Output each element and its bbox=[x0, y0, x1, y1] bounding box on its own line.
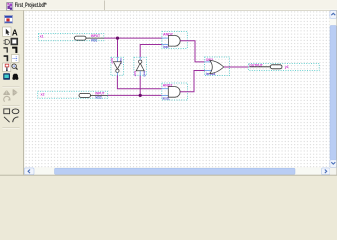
bubble bbox=[139, 60, 142, 63]
toolbar: arc tool bbox=[13, 117, 19, 122]
window bottom edge bbox=[0, 174, 337, 177]
triangle bbox=[113, 62, 121, 69]
pin stub in (blue, selected) bbox=[139, 71, 141, 76]
toolbar: rubberbanding (pressed) bbox=[3, 63, 11, 72]
svg-text:inst5: inst5 bbox=[143, 71, 147, 77]
triangle bbox=[136, 63, 144, 70]
toolbar: block tool bbox=[11, 39, 17, 45]
input pin x1 bbox=[38, 34, 103, 43]
toolbar separator bbox=[2, 127, 19, 130]
svg-text:NOT: NOT bbox=[133, 71, 137, 77]
svg-text:First_Project.bdf*: First_Project.bdf* bbox=[15, 2, 47, 9]
AND body bbox=[168, 36, 180, 47]
schematic bbox=[38, 32, 320, 101]
toolbar: rotate 90 (disabled) bbox=[4, 96, 10, 101]
toolbar: orthogonal bus tool bbox=[12, 48, 16, 53]
title bar bbox=[0, 0, 337, 10]
toolbar: symbol tool bbox=[5, 40, 9, 45]
pin stub in1 (blue) bbox=[162, 37, 169, 39]
wire x2 branch up to NOT inst5 bbox=[139, 75, 141, 95]
toolbar: window button bbox=[4, 15, 12, 23]
vertical scrollbar bbox=[330, 11, 337, 168]
toolbar: rectangle tool bbox=[4, 109, 10, 114]
output pin y1 bbox=[249, 64, 320, 71]
toolbar: orthogonal conduit tool bbox=[4, 56, 8, 61]
pin stub in1 (blue) bbox=[162, 88, 169, 90]
junction node B bbox=[139, 94, 142, 97]
toolbar separator bbox=[2, 105, 19, 108]
pin symbol body y1 bbox=[270, 65, 282, 69]
pin lead x1 bbox=[86, 37, 104, 39]
wire AND inst1 output to OR inst3 bbox=[180, 71, 205, 92]
AND2 gate inst (top) bbox=[162, 32, 187, 49]
pin stub in2 (blue) bbox=[205, 70, 212, 72]
OR body bbox=[210, 60, 224, 73]
pin stub in2 (blue) bbox=[162, 44, 169, 46]
pin stub in1 (blue) bbox=[205, 61, 212, 63]
svg-text:x1: x1 bbox=[40, 35, 44, 39]
pin stub out (blue, selected) bbox=[139, 57, 141, 60]
selection box x1 bbox=[38, 34, 103, 41]
wire x1 rail bbox=[104, 37, 162, 39]
bubble bbox=[116, 69, 119, 72]
wire NOT inst5 output to AND inst bbox=[140, 45, 162, 58]
NOT gate inst4 (points down) bbox=[110, 57, 123, 75]
wire OR inst3 output to pin y1 bbox=[224, 66, 249, 68]
pin stub in (blue, selected) bbox=[116, 57, 118, 61]
pin lead y1 bbox=[249, 66, 270, 68]
toolbar: flip horizontal (disabled) bbox=[3, 91, 9, 94]
svg-text:y1: y1 bbox=[285, 65, 289, 69]
pin lead x2 bbox=[91, 94, 108, 96]
canvas bbox=[24, 11, 330, 168]
toolbar: line tool bbox=[4, 117, 10, 122]
svg-text:NOT: NOT bbox=[110, 58, 114, 64]
toolbar: selection arrow (pressed) bbox=[3, 27, 11, 36]
svg-text:VCC: VCC bbox=[95, 96, 102, 100]
toolbar separator bbox=[2, 85, 19, 88]
pin stub out (blue, selected) bbox=[116, 72, 118, 75]
toolbar: flip vertical (disabled) bbox=[13, 89, 16, 95]
svg-text:OUTPUT: OUTPUT bbox=[249, 64, 263, 68]
document icon bbox=[7, 3, 13, 11]
toolbar: find bbox=[13, 74, 18, 78]
left toolbar bbox=[0, 11, 23, 175]
window right edge bbox=[336, 10, 337, 175]
wire x2 rail bbox=[108, 94, 162, 96]
window background bbox=[0, 0, 337, 177]
toolbar: full screen bbox=[3, 73, 10, 80]
svg-text:A: A bbox=[12, 28, 18, 37]
wire NOT inst4 output to AND inst1 bbox=[117, 75, 161, 88]
input pin x2 bbox=[38, 91, 108, 99]
AND2 gate inst1 (bottom) bbox=[162, 83, 188, 101]
toolbar: zoom tool bbox=[12, 64, 16, 68]
toolbar: partial line selection (pressed) bbox=[11, 55, 19, 63]
wire x1 branch down to NOT inst4 bbox=[117, 38, 119, 57]
pin symbol body x2 bbox=[79, 93, 91, 97]
NOT gate inst5 (points up) bbox=[133, 57, 147, 77]
svg-text:x2: x2 bbox=[41, 92, 45, 96]
pin symbol body x1 bbox=[75, 36, 87, 40]
svg-text:VCC: VCC bbox=[91, 38, 98, 42]
junction node A bbox=[116, 37, 119, 40]
wire AND inst output to OR inst3 bbox=[180, 41, 204, 62]
pin stub in2 (blue) bbox=[162, 94, 169, 96]
selection box x2 bbox=[38, 91, 108, 98]
OR2 gate inst3 bbox=[205, 57, 230, 76]
toolbar: ellipse tool bbox=[12, 109, 19, 114]
AND body bbox=[168, 87, 180, 98]
toolbar: orthogonal node tool bbox=[3, 48, 7, 53]
horizontal scrollbar bbox=[24, 168, 336, 175]
